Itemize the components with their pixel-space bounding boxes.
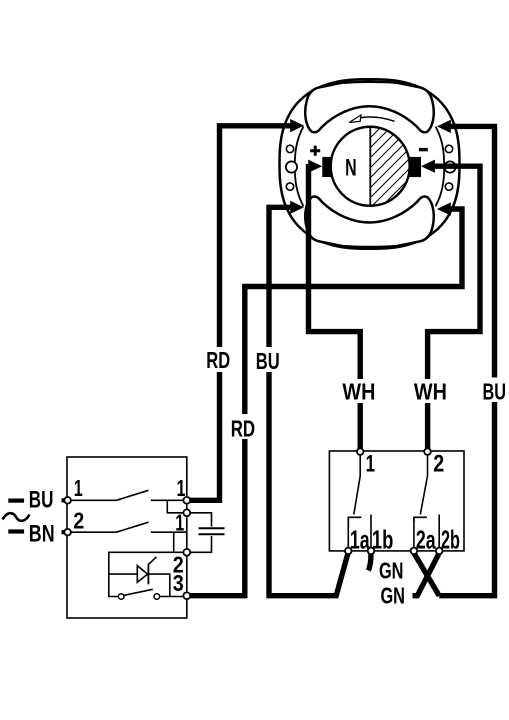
label RD on wire 2: [229, 414, 257, 441]
svg-text:GN: GN: [379, 557, 404, 583]
control box: [67, 457, 225, 618]
label BU on mid wire: [254, 347, 282, 374]
node C: [183, 549, 190, 556]
GN stub wire from 1b: [368, 553, 371, 571]
svg-text:1b: 1b: [372, 525, 393, 555]
terminal nub 1: [62, 498, 66, 502]
mounting hole small left bottom: [286, 183, 293, 190]
svg-text:BU: BU: [29, 486, 54, 513]
node link wire: [167, 500, 187, 513]
AC tilde: [3, 513, 30, 521]
plus label: [310, 146, 320, 156]
mounting hole small left top: [286, 145, 293, 152]
label WH on wire to terminal 2: [412, 378, 449, 404]
rotor hatching: [362, 106, 452, 256]
sub box switch blade: [124, 589, 153, 595]
motor housing: [280, 79, 460, 249]
wire RD2: lower-right field arrow, down left to control box terminal 3: [187, 209, 462, 596]
sub box top and left: [109, 552, 187, 596]
wire RD from control box terminal 1 up to upper-left field arrow: [187, 126, 292, 501]
svg-text:N: N: [345, 155, 357, 182]
wire left brush down to WH terminal 1: [309, 164, 361, 449]
control box outline: [67, 457, 187, 618]
contact 1b line: [370, 515, 372, 549]
thyristor gate: [148, 557, 156, 565]
arrowhead into right brush: [421, 160, 435, 173]
terminal 1a: [345, 548, 352, 555]
capacitor C1 plates: [199, 528, 225, 534]
svg-text:1: 1: [74, 475, 83, 501]
switch 1 blade: [354, 453, 360, 515]
contact 2b line: [438, 515, 440, 549]
arrowhead upper-right into stator: [437, 120, 451, 133]
thyristor branch wire: [109, 574, 170, 596]
svg-text:2b: 2b: [441, 525, 460, 555]
node A: [183, 497, 190, 504]
svg-text:2: 2: [433, 450, 444, 477]
limit switch box outline: [329, 451, 464, 551]
arrowhead lower-left into stator: [290, 201, 304, 214]
svg-text:RD: RD: [231, 415, 255, 441]
wire BU far right: upper-right field arrow down to GN crossing: [439, 126, 494, 595]
switch 2 blade: [420, 453, 427, 515]
mounting hole small right top: [445, 145, 452, 152]
svg-text:BU: BU: [256, 348, 280, 374]
terminal 1 top: [357, 448, 364, 455]
arrowhead upper-left into stator: [290, 119, 304, 132]
label BU on far right wire: [481, 378, 508, 405]
arrowhead into left brush: [308, 160, 322, 173]
terminal 2 top: [424, 448, 431, 455]
mounting hole big left: [286, 161, 297, 172]
sub switch contact a: [118, 594, 124, 600]
arrowhead lower-right into stator: [437, 202, 451, 215]
terminal 1b: [368, 548, 375, 555]
rotation arrow: [361, 117, 395, 121]
rotor divider: [369, 127, 371, 205]
svg-text:WH: WH: [342, 378, 375, 404]
switch row 1 blade: [116, 490, 148, 500]
svg-text:3: 3: [173, 570, 184, 596]
contact 1a line: [347, 518, 349, 548]
rotor: [331, 127, 410, 206]
motor M1: [280, 79, 460, 256]
switch 1 hook: [348, 517, 361, 521]
field coil upper: [305, 82, 434, 133]
switch row 2 wire right: [151, 532, 187, 552]
limit switch box: [329, 451, 464, 551]
sub box switch wire: [160, 596, 187, 598]
switch 2 hook: [414, 517, 427, 521]
node D: [183, 592, 190, 599]
terminal 2b: [436, 548, 443, 555]
AC source dash lower: [8, 529, 24, 533]
brush right: [410, 157, 422, 177]
label WH on wire to terminal 1: [341, 378, 378, 404]
brush-plate inner edge left: [295, 127, 304, 207]
terminal circle 1: [64, 497, 71, 504]
terminal 2a: [411, 548, 418, 555]
svg-text:2a: 2a: [416, 525, 436, 555]
field coil lower: [305, 196, 434, 247]
minus label: [419, 148, 428, 151]
mounting hole big right: [444, 161, 455, 172]
svg-text:GN: GN: [380, 582, 405, 608]
svg-text:1: 1: [366, 450, 375, 477]
wire 2b cross leg: [413, 553, 440, 596]
thyristor V1 triangle: [137, 566, 147, 583]
svg-text:BU: BU: [483, 379, 507, 405]
AC source dash upper: [8, 499, 24, 503]
terminal nub 2: [62, 530, 66, 534]
brush-plate inner edge right: [436, 127, 445, 207]
svg-text:WH: WH: [414, 378, 447, 404]
switch row 2 blade: [116, 522, 148, 532]
terminal circle 2: [64, 529, 71, 536]
switch row 1 wire right: [151, 499, 187, 501]
node B: [183, 509, 190, 516]
svg-text:2: 2: [73, 507, 84, 533]
brush left: [322, 157, 331, 177]
switch row 1 wire left: [71, 499, 116, 501]
wires thick: [187, 126, 495, 596]
svg-text:BN: BN: [29, 521, 55, 548]
thyristor cathode bar: [147, 564, 149, 585]
sub switch contact b: [154, 594, 160, 600]
capacitor C1 wiring: [187, 513, 212, 553]
wire BU mid: lower-left field arrow down to GN row and 1a: [269, 207, 348, 595]
contact 2a line: [413, 518, 415, 548]
mounting hole small right bottom: [445, 183, 452, 190]
switch row 2 wire left: [71, 531, 116, 533]
wire right brush to far right and down to WH terminal 2: [428, 166, 480, 449]
svg-text:RD: RD: [206, 347, 230, 373]
wire 2a cross leg: [414, 553, 439, 596]
label RD on wire 1: [205, 347, 233, 373]
